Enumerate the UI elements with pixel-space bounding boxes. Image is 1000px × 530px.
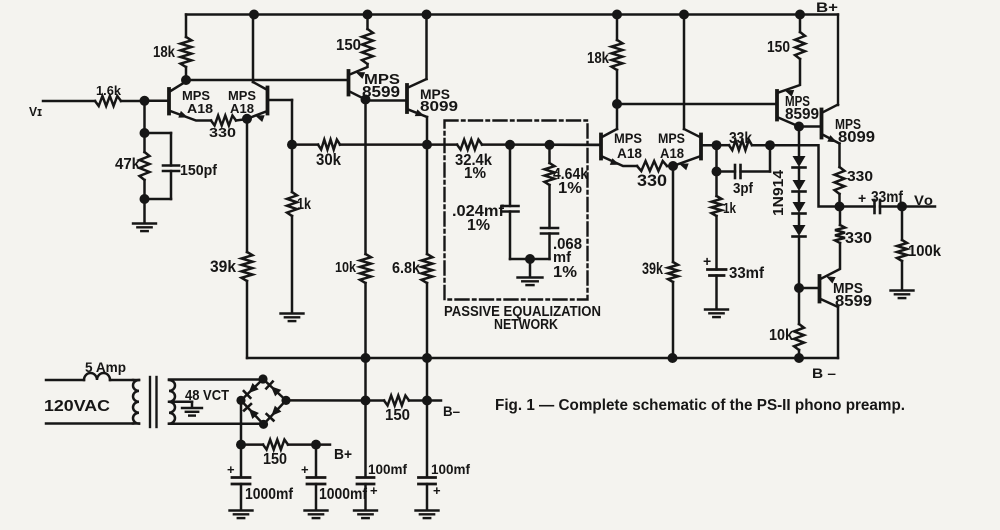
svg-text:+: + — [703, 253, 711, 269]
svg-text:Fig. 1 — Complete schematic of: Fig. 1 — Complete schematic of the PS-II… — [495, 397, 905, 414]
svg-text:150: 150 — [767, 39, 790, 56]
svg-text:150: 150 — [263, 451, 287, 468]
svg-text:Vɪ: Vɪ — [29, 105, 42, 119]
svg-text:B+: B+ — [816, 0, 838, 15]
svg-text:18k: 18k — [587, 50, 609, 67]
svg-text:150: 150 — [385, 407, 410, 424]
svg-text:B –: B – — [812, 365, 836, 381]
svg-text:+: + — [370, 483, 378, 498]
svg-text:1k: 1k — [297, 196, 311, 213]
svg-text:8599: 8599 — [835, 293, 872, 310]
svg-text:+: + — [858, 190, 866, 206]
svg-text:33k: 33k — [729, 130, 752, 147]
svg-text:MPS: MPS — [228, 89, 256, 103]
svg-text:1000mf: 1000mf — [319, 486, 368, 503]
svg-text:18k: 18k — [153, 44, 175, 61]
svg-text:39k: 39k — [642, 259, 663, 278]
svg-text:1%: 1% — [553, 264, 577, 281]
svg-text:A18: A18 — [617, 146, 642, 161]
svg-text:47k: 47k — [115, 156, 140, 173]
svg-text:A18: A18 — [230, 102, 254, 116]
svg-text:100mf: 100mf — [368, 462, 407, 477]
svg-text:MPS: MPS — [614, 130, 642, 146]
svg-text:1%: 1% — [464, 165, 486, 182]
svg-text:1.6k: 1.6k — [96, 84, 121, 98]
svg-text:3pf: 3pf — [733, 180, 754, 197]
svg-text:33mf: 33mf — [729, 265, 765, 282]
svg-text:100mf: 100mf — [431, 462, 470, 477]
svg-text:33mf: 33mf — [871, 189, 904, 206]
svg-text:+: + — [301, 462, 309, 477]
svg-text:330: 330 — [637, 171, 667, 190]
svg-text:6.8k: 6.8k — [392, 260, 420, 277]
svg-text:B–: B– — [443, 404, 460, 419]
svg-text:8099: 8099 — [838, 129, 875, 146]
svg-text:39k: 39k — [210, 257, 236, 276]
svg-text:30k: 30k — [316, 150, 341, 169]
svg-text:8599: 8599 — [362, 84, 400, 101]
svg-text:330: 330 — [209, 126, 236, 140]
svg-text:120VAC: 120VAC — [44, 398, 110, 415]
svg-text:A18: A18 — [660, 146, 684, 161]
svg-text:330: 330 — [845, 230, 872, 247]
svg-text:+: + — [227, 462, 235, 477]
svg-text:10k: 10k — [769, 327, 793, 344]
svg-text:8599: 8599 — [785, 106, 819, 123]
svg-text:1k: 1k — [723, 200, 737, 217]
svg-text:150pf: 150pf — [180, 162, 218, 179]
svg-text:1N914: 1N914 — [771, 170, 787, 216]
svg-text:+: + — [433, 483, 441, 498]
svg-text:1000mf: 1000mf — [245, 486, 294, 503]
svg-text:1%: 1% — [467, 217, 490, 234]
svg-text:Vᴏ: Vᴏ — [914, 192, 933, 208]
svg-text:10k: 10k — [335, 259, 357, 276]
svg-text:330: 330 — [847, 168, 873, 185]
svg-text:8099: 8099 — [420, 99, 458, 115]
svg-text:A18: A18 — [187, 102, 213, 116]
svg-text:150: 150 — [336, 37, 361, 54]
svg-text:MPS: MPS — [182, 89, 210, 103]
svg-text:MPS: MPS — [658, 130, 685, 146]
svg-text:100k: 100k — [908, 243, 941, 260]
svg-text:NETWORK: NETWORK — [494, 317, 558, 333]
svg-text:B+: B+ — [334, 447, 352, 463]
svg-text:1%: 1% — [558, 180, 582, 197]
